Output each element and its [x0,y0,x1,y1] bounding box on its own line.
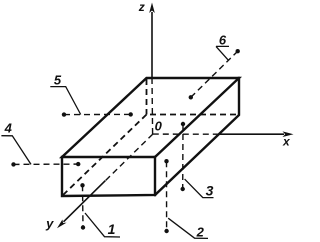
svg-text:5: 5 [54,72,62,87]
label 2 leader [168,218,208,238]
svg-text:4: 4 [4,121,13,136]
label 1 leader [85,213,120,237]
y axis [57,134,153,228]
svg-text:x: x [282,135,291,149]
svg-text:0: 0 [155,119,163,134]
wire top face outline [62,78,239,157]
rod 5 (horizontal link, upper left) [62,112,133,117]
label 6 leader [216,46,229,60]
svg-text:3: 3 [206,182,214,198]
parallelepiped body: visible solid edges [62,78,239,196]
wire hidden vertical edge [146,79,148,115]
x axis [153,131,294,137]
wire hidden bottom-back edge [150,114,238,116]
rod 4 (horizontal link, left) [11,162,80,167]
svg-text:y: y [45,216,54,231]
svg-text:z: z [138,0,145,14]
rod 1 (vertical link under bottom face) [80,183,85,230]
svg-text:1: 1 [108,221,116,237]
label 4 leader [1,136,31,165]
rod 6 (diagonal link, upper right) [189,49,240,100]
svg-text:2: 2 [196,225,205,240]
wire right face outline [155,78,239,195]
rod 3 (vertical link) [181,122,186,191]
rod 2 (vertical link) [164,159,169,233]
hidden edges (dashed) [63,79,239,196]
wire front face outline [62,157,155,196]
label 5 leader [50,87,80,115]
label 3 leader [185,179,214,198]
wire hidden bottom-left edge [63,115,147,196]
svg-text:6: 6 [219,33,227,48]
z axis [149,3,155,135]
